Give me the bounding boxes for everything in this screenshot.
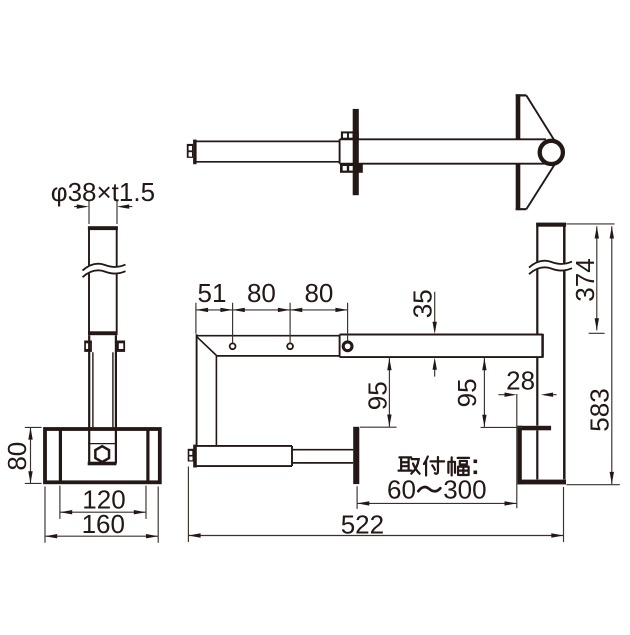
- dim 51/80/80 extension lines: [196, 303, 348, 344]
- dim 374 extension lines: [567, 224, 615, 333]
- outer arm tube (plan): [340, 139, 546, 163]
- dim 51/80/80 arrows: [196, 308, 208, 312]
- wall hook bottom flange + mast bottom cap (side): [517, 480, 566, 485]
- upper arm inner tube (side): [196, 336, 339, 356]
- mast pipe circle (plan): [540, 141, 563, 164]
- upper arm right end cap (side): [541, 334, 544, 358]
- mast pipe top cap (front): [88, 226, 118, 230]
- dim 95 left: [388, 358, 390, 427]
- svg-text:35: 35: [407, 289, 437, 318]
- svg-text:95: 95: [452, 378, 482, 407]
- svg-text:374: 374: [570, 258, 600, 301]
- clamp bolt (side): [343, 342, 352, 351]
- hex bolt head (front): [95, 446, 109, 462]
- lower arm tabs (side): [188, 449, 194, 462]
- bolt box bottom (front): [88, 462, 117, 466]
- beam end cap lines (front): [60, 429, 147, 483]
- svg-text:522: 522: [341, 510, 384, 540]
- colon after kanji: [474, 460, 478, 464]
- clamp bracket above tube (plan): [341, 131, 359, 139]
- mast pipe top cap (side): [536, 223, 566, 227]
- dim 583 extension line: [566, 484, 619, 486]
- svg-text:60: 60: [387, 475, 416, 505]
- clamp bracket below tube (plan): [340, 164, 363, 173]
- svg-text:583: 583: [585, 388, 615, 431]
- inner slide tube (plan): [196, 141, 340, 161]
- wall hook plate (side): [517, 426, 521, 485]
- pipe clamp saddle (front): [88, 331, 118, 335]
- svg-text:80: 80: [2, 442, 32, 471]
- dim 51/80/80 line: [196, 309, 348, 311]
- dim 522: [188, 467, 563, 543]
- bottom beam channel (front): [45, 429, 160, 482]
- svg-text:28: 28: [506, 366, 535, 396]
- wall hook top flange (side): [517, 426, 551, 431]
- svg-text:51: 51: [198, 278, 227, 308]
- dim 80 (front view): [25, 427, 42, 483]
- lower arm left end cap (side): [193, 445, 197, 468]
- svg-text:300: 300: [443, 475, 486, 505]
- mast pipe (front): [89, 230, 117, 332]
- inner tube left end cap (plan): [193, 140, 197, 165]
- wall mast pipe (side): [536, 227, 538, 480]
- upper gusset triangle (plan): [526, 95, 556, 143]
- clamp strap verticals (front): [89, 335, 116, 463]
- dim 120: [60, 486, 146, 519]
- pressure plate edge-on (plan): [353, 109, 359, 195]
- svg-text:95: 95: [362, 381, 392, 410]
- bolt box top line (front): [88, 443, 116, 445]
- dim text mounting width (kanji): [399, 457, 470, 476]
- dim 35: [434, 292, 436, 377]
- mast pipe break symbol (side): [529, 261, 572, 274]
- hole 2 (side): [287, 343, 293, 349]
- svg-text:φ38×t1.5: φ38×t1.5: [51, 177, 155, 207]
- dim 95 right: [483, 358, 485, 427]
- clamp ear right (front): [116, 341, 125, 352]
- mast pipe break symbol (front): [83, 264, 126, 277]
- lower gusset triangle (plan): [526, 161, 556, 209]
- wave dash: [418, 487, 440, 491]
- left end tabs (plan): [187, 144, 193, 158]
- lower arm outer tube (side): [197, 446, 292, 466]
- upper arm corner diagonal (side): [197, 337, 217, 356]
- vertical post (side): [196, 334, 198, 445]
- clamp ear left (front): [84, 341, 92, 352]
- dim 28: [498, 394, 556, 508]
- wall plate edge-on (plan): [516, 94, 521, 139]
- lower arm inner tube (side): [292, 450, 353, 463]
- dim mounting width line: [357, 486, 517, 509]
- hole 1 (side): [230, 343, 236, 349]
- svg-text:80: 80: [247, 278, 276, 308]
- upper arm outer tube (side): [340, 335, 543, 358]
- dim phi38: [74, 201, 132, 224]
- dim 583 line: [611, 226, 613, 484]
- dim 374 line: [596, 226, 598, 330]
- svg-text:160: 160: [82, 509, 125, 539]
- dim 160: [45, 487, 158, 543]
- pressure plate (side): [353, 427, 359, 484]
- svg-text:80: 80: [304, 278, 333, 308]
